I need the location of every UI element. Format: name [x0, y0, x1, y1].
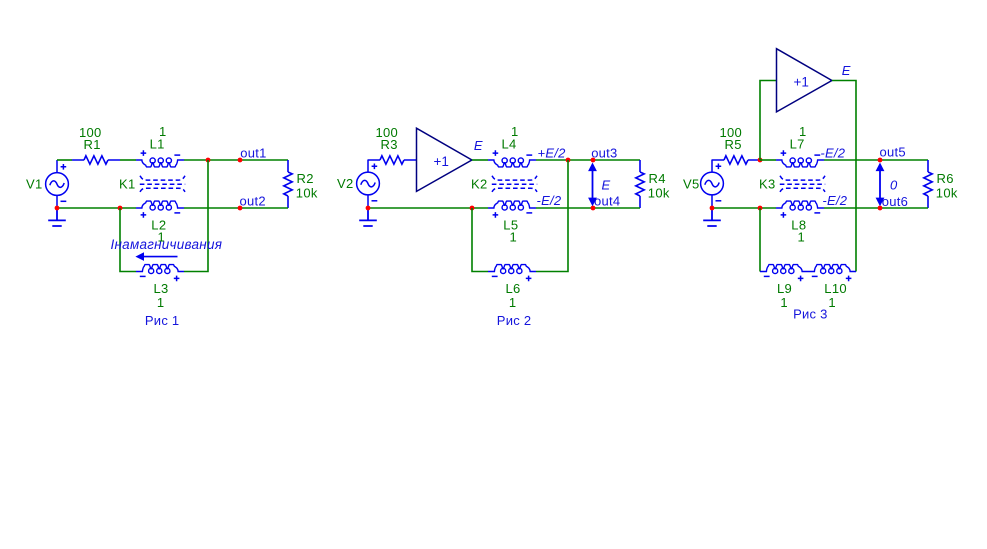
svg-text:K3: K3: [759, 176, 776, 191]
wire buffer out down to L10: [832, 81, 856, 272]
svg-text:R1: R1: [84, 137, 101, 152]
svg-text:L4: L4: [502, 137, 517, 152]
junction L9 branch: [758, 206, 763, 211]
node out3 dot: [591, 158, 596, 163]
svg-text:R4: R4: [649, 171, 666, 186]
svg-text:1: 1: [828, 295, 836, 310]
junction V5 minus: [710, 206, 715, 211]
svg-text:R3: R3: [381, 137, 398, 152]
svg-text:V1: V1: [26, 177, 43, 192]
svg-text:10k: 10k: [296, 186, 318, 201]
node out2 dot: [238, 206, 243, 211]
svg-text:L6: L6: [506, 281, 521, 296]
svg-text:R2: R2: [297, 171, 314, 186]
svg-text:L3: L3: [154, 281, 169, 296]
op-amp buffer U1 +1: [417, 128, 472, 191]
svg-text:L1: L1: [150, 137, 165, 152]
svg-text:out2: out2: [240, 193, 266, 208]
arrow 0 between out5 out6: [876, 163, 885, 207]
svg-text:R6: R6: [937, 171, 954, 186]
op-amp buffer U2 +1: [777, 49, 832, 112]
svg-text:1: 1: [509, 295, 517, 310]
inductor L8: [776, 201, 824, 218]
arrow E between out3 out4: [588, 163, 597, 207]
wire R5 to L7: [760, 159, 776, 161]
svg-text:+E/2: +E/2: [538, 145, 567, 160]
wire L1 to R2 top: [184, 159, 288, 161]
svg-text:1: 1: [798, 230, 806, 245]
wire down to L3: [120, 208, 136, 272]
inductor L10: [808, 265, 856, 282]
svg-text:10k: 10k: [648, 186, 670, 201]
inductor L4: [488, 150, 536, 167]
resistor R3: [368, 156, 416, 164]
svg-text:L7: L7: [790, 137, 805, 152]
svg-text:1: 1: [157, 295, 165, 310]
svg-text:10k: 10k: [936, 186, 958, 201]
wire up to buffer input: [760, 81, 777, 161]
junction L6 branch top: [566, 158, 571, 163]
resistor R4: [636, 160, 644, 208]
svg-text:out5: out5: [880, 145, 906, 160]
inductor L9: [760, 265, 808, 282]
node junction top: [206, 158, 211, 163]
inductor L7: [776, 150, 824, 167]
magnetizing current arrow: [135, 252, 177, 261]
inductor L6: [488, 265, 536, 282]
node out5 dot: [878, 158, 883, 163]
ground: [359, 208, 377, 226]
svg-text:-E/2: -E/2: [820, 145, 845, 160]
junction V1 minus: [55, 206, 60, 211]
ground: [703, 208, 721, 226]
wire L3 to top node: [184, 160, 208, 272]
coupling K1: [140, 176, 185, 192]
inductor L5: [488, 201, 536, 218]
resistor R2: [284, 160, 292, 208]
junction V2 minus: [366, 206, 371, 211]
inductor L2: [136, 201, 184, 218]
junction L6 branch bottom: [470, 206, 475, 211]
wire down to L9: [759, 208, 761, 272]
wire bottom row circuit3 right: [824, 207, 928, 209]
wire bottom row circuit2 left: [368, 207, 488, 209]
wire bottom row circuit2 right: [536, 207, 640, 209]
svg-text:L10: L10: [824, 281, 847, 296]
wire bottom row circuit3 left: [712, 207, 776, 209]
svg-text:V5: V5: [683, 176, 700, 191]
svg-text:L9: L9: [777, 281, 792, 296]
node out6 dot: [878, 206, 883, 211]
node out1 dot: [238, 158, 243, 163]
wire down to L6: [472, 208, 488, 272]
wire buffer out to L4: [472, 159, 488, 161]
svg-text:Рис 3: Рис 3: [793, 307, 828, 322]
wire L4 to R4 top: [536, 159, 640, 161]
wire bottom row circuit1 left: [57, 207, 136, 209]
node out4 dot: [591, 206, 596, 211]
inductor L1: [136, 150, 184, 167]
svg-text:out1: out1: [240, 145, 266, 160]
wire V1 top to R1: [57, 159, 72, 161]
svg-text:Iнамагничивания: Iнамагничивания: [111, 237, 223, 252]
svg-text:out3: out3: [591, 145, 617, 160]
svg-text:out6: out6: [882, 194, 908, 209]
svg-text:Рис 1: Рис 1: [145, 313, 180, 328]
junction buffer input: [758, 158, 763, 163]
svg-text:E: E: [842, 63, 851, 78]
svg-text:R5: R5: [725, 137, 742, 152]
svg-text:K1: K1: [119, 176, 136, 191]
svg-text:1: 1: [780, 295, 788, 310]
svg-text:+1: +1: [793, 74, 808, 89]
svg-text:out4: out4: [594, 193, 620, 208]
AC source V5: [701, 160, 724, 209]
junction L3 branch: [118, 206, 123, 211]
svg-text:-E/2: -E/2: [822, 193, 847, 208]
wire bottom row circuit1 right: [184, 207, 288, 209]
AC source V1: [46, 160, 69, 209]
svg-text:Рис 2: Рис 2: [497, 313, 532, 328]
coupling K2: [492, 176, 537, 192]
svg-text:1: 1: [510, 230, 518, 245]
resistor R6: [924, 160, 932, 208]
resistor R1: [72, 156, 120, 164]
svg-text:0: 0: [890, 177, 898, 192]
ground: [48, 208, 66, 226]
svg-text:V2: V2: [337, 176, 354, 191]
svg-text:E: E: [474, 138, 483, 153]
resistor R5: [712, 156, 760, 164]
inductor L3: [136, 265, 184, 282]
wire L6 to top junction: [536, 160, 568, 272]
AC source V2: [357, 160, 380, 209]
wire L7 to R6 top: [824, 159, 928, 161]
svg-text:K2: K2: [471, 176, 488, 191]
wire R1 to L1: [120, 159, 136, 161]
svg-text:+1: +1: [433, 154, 448, 169]
svg-text:E: E: [602, 177, 611, 192]
coupling K3: [780, 176, 825, 192]
svg-text:-E/2: -E/2: [537, 193, 562, 208]
